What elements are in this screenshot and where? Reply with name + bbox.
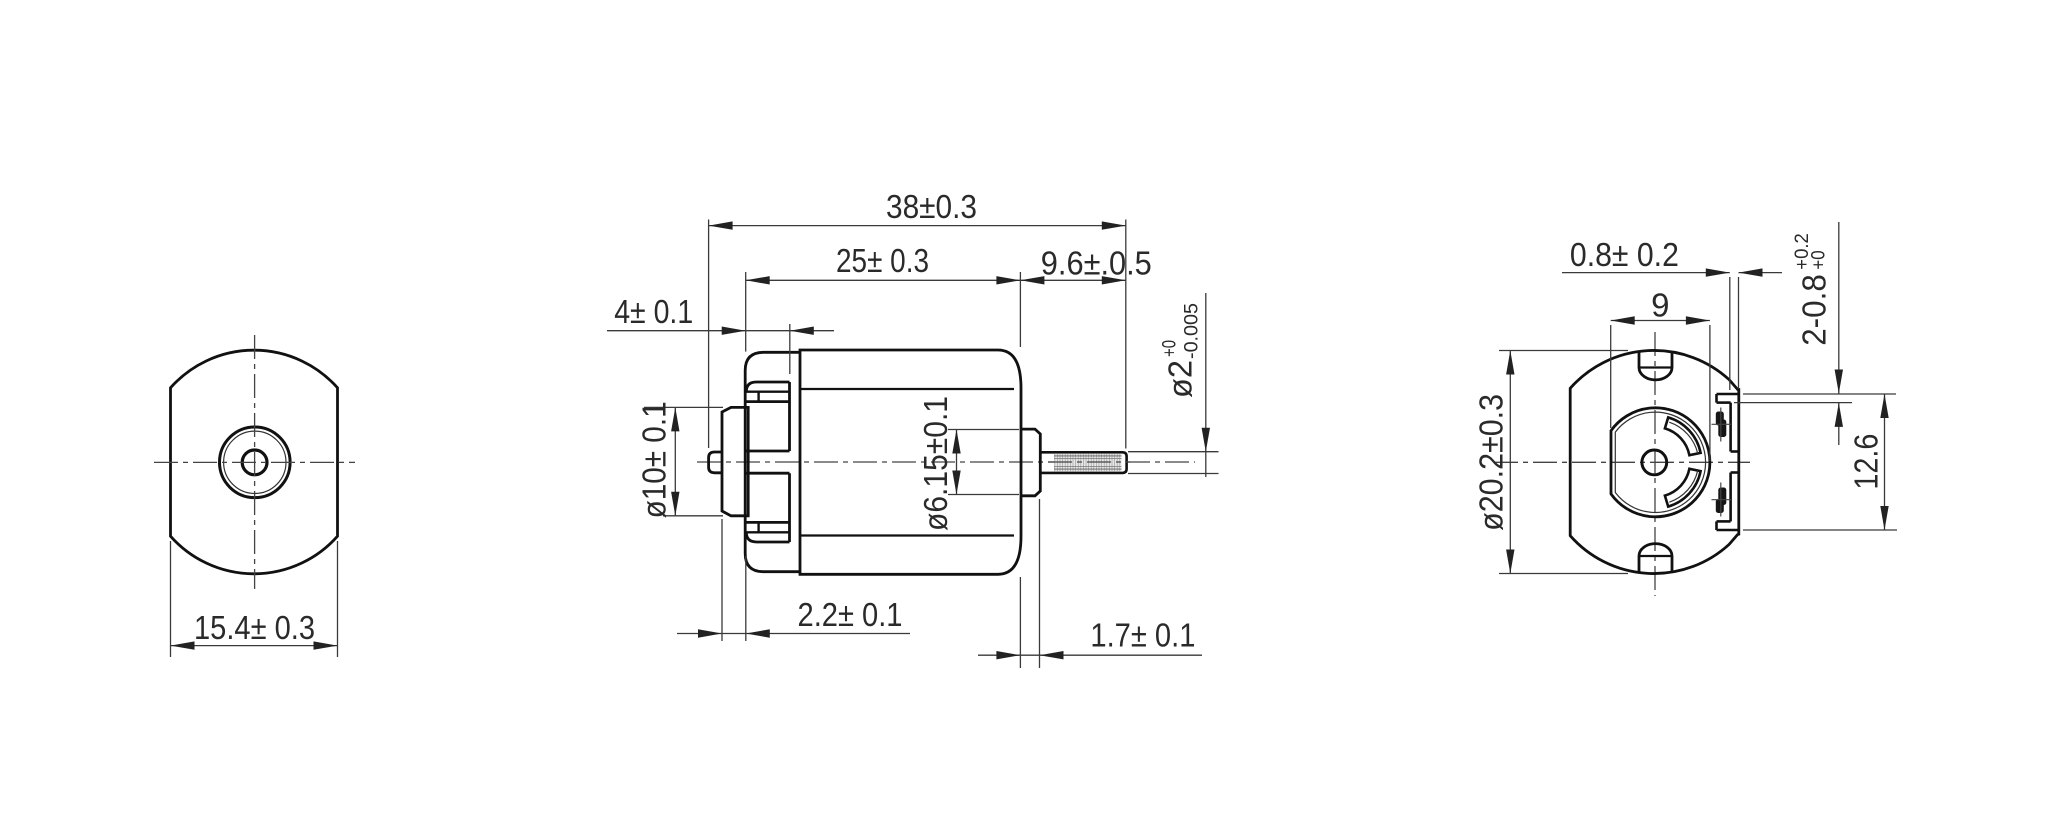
endcap lower rib (746, 532, 789, 542)
ø6.15 arrows (952, 430, 960, 495)
terminal slot upper (1717, 393, 1739, 396)
endcap collar (ø10) (722, 407, 748, 515)
4 arrows (outside) (722, 327, 814, 335)
endcap upper rib (746, 382, 789, 392)
svg-text:1.7± 0.1: 1.7± 0.1 (1090, 616, 1195, 653)
0.8 extension lines (1729, 277, 1731, 390)
svg-text:-0.005: -0.005 (1182, 303, 1203, 359)
ø10 dimension line (674, 407, 676, 515)
centerline horizontal front view (154, 461, 355, 463)
terminal slot lower (1717, 529, 1739, 532)
centerline vertical rear view (1654, 332, 1656, 596)
svg-text:4± 0.1: 4± 0.1 (614, 293, 693, 330)
25 and 9.6 dimension line (746, 279, 1126, 281)
centerline over knurl (1042, 461, 1130, 463)
1.7 extension lines (1019, 577, 1021, 668)
ø2 leader line (1205, 293, 1207, 477)
arrows rear view (1506, 268, 1889, 573)
svg-text:38±0.3: 38±0.3 (886, 188, 977, 225)
dimension 15.4±0.3 line (171, 645, 338, 647)
9 dimension line (1611, 320, 1710, 322)
dimension 15.4±0.3 arrows (171, 641, 338, 649)
shaft hole (242, 450, 267, 475)
svg-text:+0: +0 (1160, 340, 1181, 357)
svg-text:2.2± 0.1: 2.2± 0.1 (798, 596, 903, 633)
ø6.15 extension lines (948, 429, 1019, 431)
9.6 arrows (1020, 276, 1125, 284)
svg-text:15.4± 0.3: 15.4± 0.3 (194, 609, 315, 646)
terminal tab lower (1716, 488, 1727, 514)
upper slot thin arc (1669, 422, 1697, 453)
shaft hole rear (1642, 450, 1667, 475)
motor body outline front view (171, 350, 338, 574)
motor can outline (800, 350, 1021, 574)
ø6.15 dimension line (956, 430, 958, 495)
12.6 dimension line (1884, 394, 1886, 530)
lower vent arc slot (1665, 469, 1701, 507)
12.6 arrows (1880, 394, 1888, 530)
shaft knurl hatching (1054, 454, 1122, 471)
25 / 9.6 shared extension lines (745, 272, 747, 352)
ø10 extension lines (644, 406, 723, 408)
2.2 arrows (outside) (698, 629, 770, 637)
arrows middle view (671, 221, 1210, 659)
shaft outline (1040, 452, 1126, 473)
svg-text:0.8± 0.2: 0.8± 0.2 (1570, 236, 1679, 273)
shaft boss (1021, 429, 1040, 496)
dimension 15.4±0.3 extension lines (171, 541, 338, 657)
ø20.2 extension lines (1499, 350, 1628, 352)
terminal tab upper (1716, 412, 1727, 438)
endcap upper brush window (746, 400, 790, 403)
can flat tangent lines (801, 388, 1015, 390)
ø10 arrows (671, 407, 679, 515)
bearing boss outer circle (220, 427, 291, 498)
9 arrows (1611, 316, 1710, 324)
bearing recess inner thin edge (1615, 412, 1705, 512)
knurl horizontal lines (1054, 455, 1122, 457)
38 extension lines (708, 220, 710, 449)
2-0.8 leader lines (1838, 222, 1840, 394)
top mounting notch (1638, 352, 1641, 368)
bottom mounting notch (1638, 556, 1641, 573)
38 dimension line (709, 225, 1126, 227)
upper vent arc slot (1665, 417, 1701, 455)
svg-text:25± 0.3: 25± 0.3 (836, 242, 929, 279)
2.2 dimension line with tails (677, 633, 910, 635)
plate inner edge (1729, 403, 1732, 452)
dimension thin lines, middle view (607, 220, 1219, 669)
1.7 arrows (outside) (996, 651, 1063, 659)
endcap body (745, 352, 801, 571)
ø2 extension lines (1128, 451, 1219, 453)
0.8 arrows (outside) (1706, 268, 1763, 276)
svg-text:ø20.2±0.3: ø20.2±0.3 (1473, 394, 1510, 531)
centerline vertical front view (254, 335, 256, 589)
ø20.2 dimension line (1509, 351, 1511, 574)
4 dimension line with tails (607, 330, 790, 332)
svg-text:9: 9 (1651, 287, 1669, 324)
rear pivot stub (709, 452, 722, 473)
svg-text:+0: +0 (1809, 250, 1830, 269)
rear outline with terminal plate edge (1570, 350, 1739, 573)
svg-text:ø6.15±0.1: ø6.15±0.1 (917, 396, 954, 531)
bearing recess outline (flatted circle) (1611, 408, 1710, 517)
ø20.2 arrows (1506, 351, 1514, 574)
endcap lower brush window (746, 472, 790, 475)
svg-text:12.6: 12.6 (1848, 434, 1885, 490)
centerline horizontal rear view (1494, 461, 1750, 463)
1.7 dimension line with tails (978, 654, 1202, 656)
ø2 arrow (1202, 428, 1210, 452)
38 arrows (709, 221, 1126, 229)
2-0.8 arrows (outside) (1835, 370, 1843, 427)
25 arrows (746, 276, 1021, 284)
centerline side view (697, 461, 1195, 463)
lower slot thin arc (1669, 471, 1697, 503)
svg-text:ø2: ø2 (1162, 360, 1199, 398)
svg-text:2-0.8: 2-0.8 (1795, 274, 1832, 346)
svg-text:9.6±.0.5: 9.6±.0.5 (1041, 245, 1152, 282)
2.2 extension lines (721, 519, 723, 641)
0.8 dimension line with tails (1562, 272, 1730, 274)
slot extension lines right (1743, 393, 1896, 395)
bearing boss inner thin circle (224, 431, 286, 493)
svg-text:ø10± 0.1: ø10± 0.1 (636, 401, 673, 518)
4 dimension: right extension line (789, 324, 791, 374)
dimension thin lines, rear view (1499, 222, 1897, 574)
9 extension lines (1610, 325, 1612, 428)
